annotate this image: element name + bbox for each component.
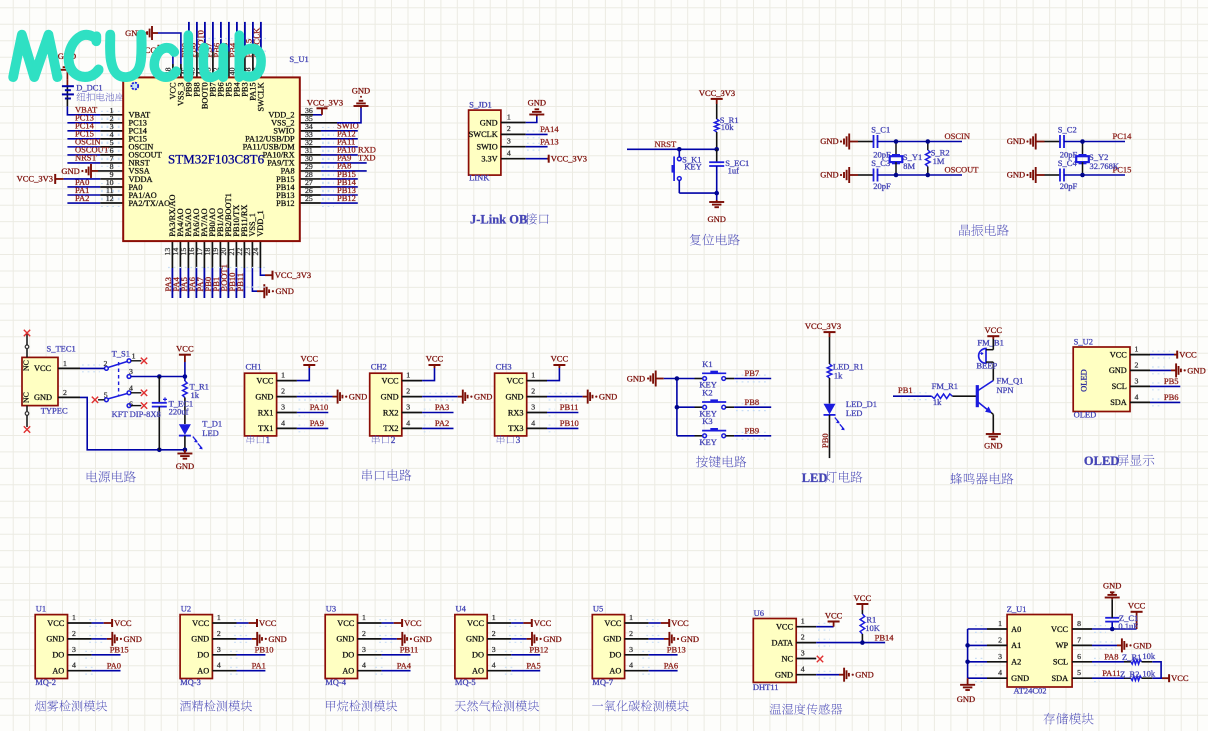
svg-text:2: 2 (1135, 360, 1139, 369)
svg-text:2: 2 (362, 629, 366, 638)
wire NRST (627, 147, 719, 152)
net label SWCLK vertical (252, 27, 262, 58)
svg-text:GND: GND (599, 392, 617, 402)
svg-text:CH2: CH2 (371, 362, 387, 372)
net label PA0 (75, 177, 121, 191)
net label PA14 (540, 124, 559, 134)
svg-text:3: 3 (72, 645, 76, 654)
pin number 46 (180, 67, 189, 75)
svg-text:VCC: VCC (47, 619, 65, 628)
wire PA1 (67, 194, 123, 196)
wire cap to gnd (716, 166, 718, 202)
resistor S_R1 10k (714, 115, 738, 132)
svg-text:S_JD1: S_JD1 (469, 99, 492, 109)
wire R1 to LED (184, 398, 186, 425)
svg-text:2: 2 (406, 387, 410, 396)
wire row2 (878, 174, 963, 176)
wire SCL PA8 (1072, 658, 1131, 665)
power port VCC_3V3 LED (805, 321, 841, 337)
svg-text:PA4: PA4 (397, 660, 412, 670)
wire GND (358, 636, 403, 643)
pin number 34 (305, 122, 313, 131)
power port VCC R1 (854, 593, 872, 610)
svg-text:MQ-7: MQ-7 (592, 677, 613, 687)
pin number 15 (179, 248, 188, 256)
power port VCC storage (1128, 601, 1146, 629)
net label PB5 vertical (220, 43, 230, 58)
title buzzer circuit (950, 473, 1013, 485)
svg-text:1: 1 (1135, 345, 1139, 354)
title J-Link OB interface (470, 213, 549, 227)
wire PB3 (244, 22, 246, 78)
svg-text:1: 1 (801, 617, 805, 626)
svg-text:1M: 1M (933, 156, 945, 166)
ground GND (463, 390, 493, 404)
battery D_DC1 button cell holder (62, 79, 124, 106)
title MQ-3 (180, 700, 252, 711)
svg-text:GND: GND (543, 634, 561, 644)
connector CH1 body (245, 362, 286, 436)
resistor S_R2 1M (926, 139, 950, 177)
net label PB12 (322, 193, 356, 207)
pin number 8 (110, 162, 114, 171)
wire PA2 (402, 425, 454, 432)
svg-text:2: 2 (629, 629, 633, 638)
wire PA12 (300, 138, 358, 140)
pin number 32 (305, 138, 313, 147)
svg-text:PB8: PB8 (745, 397, 760, 407)
net label PA6 (664, 660, 678, 670)
title MQ-4 (326, 700, 397, 711)
svg-text:WP: WP (1056, 641, 1069, 650)
wire pin1 to GND (501, 116, 537, 122)
wire PA10 (277, 409, 329, 416)
power port VCC (669, 618, 689, 628)
sensor U1 MQ-2 body (35, 604, 76, 688)
svg-text:GND: GND (1187, 365, 1205, 375)
wire collector (992, 362, 994, 380)
wire node to cap (716, 149, 718, 162)
wire PA11 (300, 146, 358, 148)
net label PA11 (1102, 668, 1120, 678)
svg-text:Z_R1: Z_R1 (1122, 652, 1141, 662)
net label PB10 (560, 418, 579, 428)
ground GND (257, 632, 287, 646)
ground GND (588, 390, 618, 404)
svg-text:GND: GND (349, 392, 367, 402)
wire row2 (1064, 174, 1125, 176)
wire VCC (527, 368, 560, 381)
wire GND (402, 393, 463, 400)
ground GND buttons (627, 371, 664, 387)
capacitor S_EC1 1uf (709, 158, 749, 175)
wire PB8 (726, 404, 772, 411)
net label PB14 (322, 177, 357, 191)
title OLED display (1084, 454, 1154, 468)
resistor LED_R1 1k (827, 361, 863, 380)
wire NRST (67, 162, 123, 164)
net label PA5 (526, 660, 540, 670)
wire TYPEC VCC to switch pin2 (58, 365, 105, 372)
svg-text:PA14: PA14 (540, 124, 559, 134)
LED LED_D1 (824, 399, 878, 431)
title power circuit (87, 471, 136, 483)
net label PC14 (75, 121, 121, 135)
wire PA9 (277, 425, 329, 432)
svg-text:PA8: PA8 (1104, 652, 1118, 662)
svg-text:1: 1 (998, 619, 1002, 628)
title LED circuit (802, 471, 863, 485)
svg-text:1: 1 (132, 352, 136, 361)
wire PA9 (300, 162, 367, 164)
sensor U3 MQ-4 body (325, 604, 366, 688)
power port VCC (112, 618, 132, 628)
svg-text:VCC: VCC (506, 376, 524, 385)
wire PA15 (252, 22, 254, 78)
svg-text:GND: GND (957, 694, 975, 704)
wire PB7 (726, 375, 772, 382)
wire BOOT0 (204, 22, 206, 78)
svg-text:8: 8 (1077, 619, 1081, 628)
svg-text:AO: AO (609, 667, 621, 676)
pin number 5 (110, 138, 114, 147)
wire PB5 (1130, 383, 1180, 390)
net label PB3 vertical (236, 43, 246, 58)
pin number 35 (305, 114, 313, 123)
svg-text:4: 4 (362, 661, 366, 670)
svg-text:NC: NC (22, 360, 31, 371)
wire PB10 (235, 241, 237, 298)
pin number 42 (212, 67, 221, 75)
svg-text:GND: GND (820, 136, 838, 146)
pin number 25 (305, 194, 313, 203)
svg-text:PA3: PA3 (435, 402, 449, 412)
wire PA1 (212, 667, 265, 674)
wire PA10 (300, 154, 358, 156)
label serial port 3 (497, 435, 521, 446)
pin number 16 (187, 248, 196, 256)
wire PA0 (68, 667, 121, 674)
wire TYPEC GND to bottom rail (58, 397, 187, 452)
wire VCC to R (829, 337, 831, 364)
svg-text:DATA: DATA (772, 638, 793, 647)
svg-text:CH1: CH1 (246, 362, 262, 372)
net label PB14 (875, 632, 895, 642)
svg-text:3: 3 (217, 645, 221, 654)
svg-text:SWCLK: SWCLK (469, 130, 498, 139)
pin number 18 (203, 248, 212, 256)
svg-text:A2: A2 (1011, 658, 1021, 667)
power port VCC (551, 354, 569, 368)
svg-text:3: 3 (629, 645, 633, 654)
svg-text:4: 4 (1135, 392, 1139, 401)
power port VCC_3V3 at pin 36 VDD_2 (300, 97, 343, 115)
pin number 31 (305, 146, 313, 155)
svg-text:VCC: VCC (1051, 625, 1069, 634)
svg-text:PB10: PB10 (560, 418, 579, 428)
svg-text:GND: GND (381, 392, 399, 401)
svg-text:GND: GND (336, 635, 354, 644)
wire VCC (358, 620, 403, 627)
net label PA5 vertical (179, 277, 189, 291)
capacitor S_C2 20pF (1058, 125, 1078, 160)
ground GND (402, 632, 432, 646)
svg-text:4: 4 (406, 418, 410, 427)
wire PA3 (402, 409, 454, 416)
pin number 39 (236, 67, 245, 75)
capacitor S_C4 20pF (1058, 158, 1078, 191)
net label PA2 (75, 193, 121, 207)
wire PB14 (300, 186, 358, 188)
wire PB9 (726, 432, 772, 439)
title MQ-2 (35, 700, 107, 711)
wire SCL to corner (1142, 662, 1162, 678)
svg-text:2: 2 (281, 387, 285, 396)
svg-text:1k: 1k (834, 370, 843, 380)
pin number 40 (228, 67, 237, 75)
svg-text:VCC_3V3: VCC_3V3 (307, 97, 343, 107)
switch T_S1 KFT DIP-8X8 (104, 348, 136, 408)
wire PB11 (358, 651, 411, 658)
net label PA2 (435, 418, 449, 428)
net label PB11 (560, 402, 579, 412)
svg-text:PB7: PB7 (745, 368, 760, 378)
svg-text:PC14: PC14 (1113, 131, 1133, 141)
wire OSCIN (67, 146, 123, 148)
wire PA5 (187, 241, 189, 298)
svg-text:4: 4 (281, 418, 285, 427)
svg-text:1: 1 (63, 359, 67, 368)
net label PA6 vertical (187, 277, 197, 291)
pin NC bottom with no-ERC (24, 406, 30, 433)
power port VCC OLED (1177, 350, 1197, 360)
svg-text:3: 3 (281, 403, 285, 412)
net label VBAT (75, 105, 121, 119)
svg-text:PB15: PB15 (110, 645, 129, 655)
net label PA11 (322, 137, 355, 151)
ground GND (532, 632, 562, 646)
wire VBAT battery to pin1 (67, 106, 100, 115)
net label PB15 (110, 645, 129, 655)
svg-text:AO: AO (472, 667, 484, 676)
power port VCC_3V3 at pin 9 VDDA (17, 174, 124, 184)
svg-text:GND: GND (627, 374, 645, 384)
wire GND (68, 636, 113, 643)
svg-text:VCC: VCC (671, 618, 689, 628)
wire buzzer to VCC (992, 339, 994, 350)
svg-text:MQ-3: MQ-3 (180, 677, 201, 687)
sensor U4 MQ-5 body (455, 604, 496, 688)
net label SWIO (322, 121, 359, 135)
pin number 10 (106, 178, 114, 187)
pin number 27 (305, 178, 313, 187)
svg-text:VCC_3V3: VCC_3V3 (17, 174, 53, 184)
ground GND power (176, 450, 194, 471)
net label PB13 (667, 645, 686, 655)
eeprom Z_U1 AT24C02 body (998, 604, 1081, 696)
svg-text:DO: DO (52, 651, 64, 660)
svg-text:PA2: PA2 (435, 418, 449, 428)
sensor U5 MQ-7 body (592, 604, 633, 688)
wire row1 (878, 141, 963, 143)
wire R to base (952, 395, 976, 397)
pin number 21 (227, 248, 236, 256)
svg-text:S_C4: S_C4 (1058, 158, 1078, 168)
net label NRST (75, 153, 121, 167)
svg-text:OLED: OLED (1074, 410, 1097, 420)
svg-text:DO: DO (472, 651, 484, 660)
net label PA4 (397, 660, 412, 670)
svg-text:PA1: PA1 (252, 660, 266, 670)
pin number 29 (305, 162, 313, 171)
svg-text:PB12: PB12 (276, 199, 294, 208)
pin number 41 (220, 67, 229, 75)
svg-text:1k: 1k (933, 397, 942, 407)
svg-text:NRST: NRST (655, 139, 678, 149)
svg-text:2: 2 (217, 629, 221, 638)
wire VCC (625, 620, 670, 627)
svg-text:3: 3 (531, 403, 535, 412)
svg-text:PA5: PA5 (526, 660, 540, 670)
svg-text:RX2: RX2 (383, 408, 399, 417)
ground GND above cap (1103, 581, 1121, 600)
svg-text:VCC_3V3: VCC_3V3 (805, 321, 841, 331)
wire gnd bus (664, 376, 695, 436)
svg-text:S_TEC1: S_TEC1 (47, 344, 76, 354)
wire PB11 (243, 241, 245, 298)
svg-text:SWCLK: SWCLK (257, 82, 266, 111)
title MQ-5 (455, 700, 539, 711)
resistor R1 10K (860, 610, 881, 643)
capacitor S_C1 20pF (871, 125, 891, 160)
svg-text:VCC: VCC (301, 354, 319, 364)
power port VCC (532, 618, 552, 628)
wire PB1 (219, 241, 221, 298)
capacitor S_C3 20pF (871, 158, 891, 191)
pin number 17 (195, 248, 204, 256)
pin number 37 (252, 67, 261, 75)
wire VCC rail down (184, 377, 186, 382)
pin number 7 (110, 154, 114, 163)
svg-text:TX2: TX2 (383, 424, 398, 433)
ground GND WP (1122, 638, 1152, 652)
net label PA15 vertical (244, 39, 254, 58)
svg-text:PB1: PB1 (898, 385, 913, 395)
svg-text:A1: A1 (1011, 641, 1021, 650)
svg-text:GND: GND (268, 634, 286, 644)
svg-text:VCC: VCC (114, 618, 132, 628)
svg-text:20pF: 20pF (1060, 181, 1078, 191)
ground GND J-Link (528, 97, 546, 116)
svg-text:RX1: RX1 (258, 408, 274, 417)
svg-text:VCC: VCC (1110, 350, 1128, 359)
net label PB0 vertical (820, 433, 830, 448)
wire PA0 (67, 186, 123, 188)
net label PA9 (310, 418, 324, 428)
svg-text:3: 3 (516, 436, 521, 446)
net label PC15 (1113, 165, 1132, 175)
pushbutton K1 KEY (695, 359, 727, 390)
svg-text:1: 1 (406, 371, 410, 380)
connector CH2 body (370, 362, 411, 436)
svg-text:PA10: PA10 (310, 402, 329, 412)
svg-text:6: 6 (1077, 652, 1081, 661)
svg-text:LED: LED (202, 428, 219, 438)
buzzer FM_B1 BEEP (976, 337, 1003, 370)
svg-text:3: 3 (406, 403, 410, 412)
net label OSCIN (75, 137, 121, 151)
power port VCC (402, 618, 422, 628)
wire PB8 (196, 22, 198, 78)
svg-text:2: 2 (72, 629, 76, 638)
svg-text:NPN: NPN (997, 385, 1014, 395)
ground GND top (820, 134, 858, 150)
wire PB10 (212, 651, 265, 658)
svg-text:GND: GND (276, 286, 294, 296)
svg-text:PB9: PB9 (745, 426, 760, 436)
svg-text:2: 2 (507, 124, 511, 133)
svg-text:S_C2: S_C2 (1058, 125, 1077, 135)
svg-text:MQ-2: MQ-2 (35, 677, 56, 687)
net label PB7 (745, 368, 760, 378)
svg-text:VCC: VCC (259, 618, 277, 628)
svg-text:PA0: PA0 (107, 660, 121, 670)
wire OLED VCC (1130, 351, 1177, 358)
wire LED to gnd rail (184, 436, 186, 450)
label serial port 1 (247, 435, 271, 446)
x marks unused switch contacts (92, 358, 147, 409)
pin number 19 (211, 248, 220, 256)
net label PB6 (1164, 392, 1179, 402)
power port VCC DHT (825, 610, 843, 626)
svg-text:Z_R2: Z_R2 (1120, 669, 1139, 679)
svg-text:VCC: VCC (34, 364, 52, 373)
svg-text:J-Link OB: J-Link OB (470, 213, 527, 227)
svg-text:K2: K2 (702, 388, 712, 398)
svg-text:0.1uF: 0.1uF (1118, 621, 1138, 631)
svg-text:PA9: PA9 (310, 418, 324, 428)
svg-text:AO: AO (342, 667, 354, 676)
net label PA3 vertical (163, 277, 173, 291)
svg-text:2: 2 (63, 388, 67, 397)
sensor U2 MQ-3 body (180, 604, 221, 688)
pushbutton K3 KEY (695, 416, 727, 447)
svg-text:32.768K: 32.768K (1090, 161, 1120, 171)
ground GND buzzer (984, 432, 1002, 451)
pin number 4 (110, 130, 114, 139)
svg-text:VCC: VCC (985, 325, 1003, 335)
pushbutton K2 KEY (695, 388, 727, 419)
svg-text:VCC: VCC (776, 623, 794, 632)
net label PB11 (400, 645, 419, 655)
wire PA6 (195, 241, 197, 298)
pin number 1 (110, 106, 114, 115)
wire VCC (402, 368, 435, 381)
pin number 14 (171, 248, 180, 256)
wire PB6 (1130, 399, 1180, 406)
svg-text:VCC_3V3: VCC_3V3 (275, 270, 311, 280)
net label PA8 (322, 161, 351, 175)
net label PC14 (1113, 131, 1133, 141)
svg-text:10k: 10k (1142, 651, 1156, 661)
svg-text:MQ-4: MQ-4 (325, 677, 347, 687)
power port VCC buzzer (985, 325, 1003, 339)
svg-text:SDA: SDA (1051, 674, 1068, 683)
svg-text:VCC_3V3: VCC_3V3 (551, 154, 587, 164)
wire VCC to R1 (716, 104, 718, 119)
wire DHT VCC (796, 623, 833, 630)
svg-text:GND: GND (506, 392, 524, 401)
